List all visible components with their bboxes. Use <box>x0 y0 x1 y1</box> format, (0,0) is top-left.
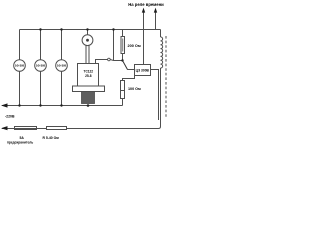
lamp EL3 <box>56 60 68 72</box>
junction dot EL2 bottom <box>39 104 41 106</box>
resistor R2 100 Ohm <box>121 81 125 99</box>
resistor R3 ballast <box>47 127 67 130</box>
svg-text:-220В: -220В <box>5 115 15 119</box>
lamp EL2 <box>35 60 47 72</box>
wire switch to box <box>127 69 134 71</box>
wire resistor R1 bottom lead <box>122 54 124 61</box>
svg-text:предохранитель: предохранитель <box>7 140 33 144</box>
switch blade SA1 <box>123 61 128 70</box>
arrow left bottom bus <box>1 103 8 107</box>
svg-text:25-8: 25-8 <box>85 74 92 78</box>
svg-text:R 5-40 Ом: R 5-40 Ом <box>43 136 60 140</box>
gate terminal circle <box>108 58 111 61</box>
wire resistor R1 top lead <box>122 30 124 37</box>
wire box right side <box>151 70 159 121</box>
wire bottom return bus <box>2 128 159 130</box>
fuse FU1 <box>15 127 37 130</box>
svg-text:На реле времени: На реле времени <box>128 2 164 7</box>
thyristor VS1 stud <box>82 92 95 104</box>
junction dot control node <box>121 59 123 61</box>
coil K1 winding loops <box>161 37 163 68</box>
thyristor VS1 anode terminal <box>82 35 93 64</box>
arrowhead to time relay right <box>154 8 157 13</box>
svg-text:1Ф-395: 1Ф-395 <box>15 64 25 68</box>
wire lamp EL3 top lead <box>61 30 63 60</box>
arrow left return bus <box>1 126 8 130</box>
wire resistor R2 bottom lead <box>122 99 124 106</box>
junction dot VS1 anode top <box>86 28 88 30</box>
lamp EL1 <box>14 60 26 72</box>
wire box bottom to resistor R2 <box>123 76 135 81</box>
arrowhead to time relay left <box>142 8 145 13</box>
svg-text:ТС122: ТС122 <box>84 70 94 74</box>
wire from top bus to control node <box>113 30 115 61</box>
resistor R1 200 Ohm <box>121 37 125 54</box>
wire gate to control node <box>110 60 122 61</box>
junction dot control drop <box>112 28 114 30</box>
wire box top to arrow <box>143 12 145 65</box>
wire lamp EL2 bottom lead <box>40 71 42 105</box>
svg-text:ЦЗ 300В: ЦЗ 300В <box>136 68 150 72</box>
wire gate lead VS1 <box>96 60 108 65</box>
svg-text:1Ф-395: 1Ф-395 <box>36 64 46 68</box>
wire anode lead VS1 <box>87 30 89 35</box>
wire arrow right from top bus <box>155 12 157 30</box>
junction dot EL2 top <box>39 28 41 30</box>
wire lamp EL1 bottom lead <box>19 71 21 105</box>
box U1 charger <box>135 65 151 76</box>
wire lamp EL2 top lead <box>40 30 42 60</box>
junction dot EL3 top <box>60 28 62 30</box>
wire lamp EL3 bottom lead <box>61 71 63 105</box>
svg-text:1Ф-395: 1Ф-395 <box>57 64 67 68</box>
junction dot stud to bus <box>87 104 90 107</box>
thyristor VS1 flange <box>73 86 105 92</box>
core dashed line <box>165 36 167 117</box>
wire coil right side from top bus <box>160 30 162 38</box>
wire lamp EL1 top lead <box>19 30 21 60</box>
thyristor VS1 body <box>78 64 99 87</box>
junction dot EL3 bottom <box>60 104 62 106</box>
svg-text:200 Ом: 200 Ом <box>128 44 141 48</box>
wire coil bottom lead <box>159 68 161 129</box>
wire bottom bus -220V <box>2 105 123 107</box>
wire top bus <box>20 29 161 31</box>
junction dot EL1 bottom <box>18 104 20 106</box>
svg-text:100 Ом: 100 Ом <box>128 87 141 91</box>
